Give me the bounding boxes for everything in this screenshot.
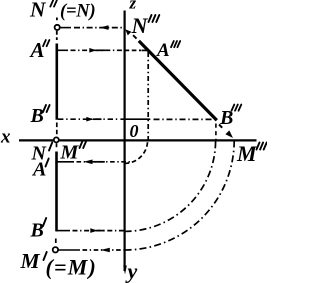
B''' vertical transfer line: [215, 124, 217, 141]
B' row: dash-dot to axis: [73, 230, 125, 232]
x-axis: [19, 139, 257, 141]
B'' row: dashes from corner: [58, 118, 118, 120]
B' row arrow tail: [97, 230, 104, 232]
svg-text:z: z: [129, 0, 137, 13]
dash between N arrow and segment: [133, 35, 136, 38]
B'' row arrow (right): [86, 117, 93, 122]
M' row: solid start from circle: [58, 249, 80, 251]
A''' vertical transfer line: [147, 52, 149, 140]
A'' row arrow tail: [96, 49, 105, 51]
M depth transfer arc: [125, 140, 235, 250]
svg-text:M: M: [236, 141, 258, 166]
left connector: solid through A' down to B': [55, 152, 58, 232]
svg-text:(=M): (=M): [46, 255, 98, 280]
N''' arrowhead (up-left): [125, 29, 131, 35]
B' row: solid start from corner: [56, 230, 70, 232]
left connector: dashed B'' to x-axis: [56, 123, 58, 137]
left connector: dashes below N'' circle: [56, 31, 58, 40]
svg-text:B: B: [30, 105, 44, 127]
B''' row: dash-dot to B''': [154, 118, 216, 120]
extension B''' toward M''': [219, 125, 222, 128]
svg-text:B: B: [30, 220, 44, 242]
A' row arrow tail: [92, 161, 105, 163]
y-axis down arrow: [123, 266, 127, 275]
svg-text:0: 0: [130, 121, 139, 141]
svg-text:A: A: [156, 40, 170, 61]
point circle N'': [55, 25, 60, 30]
svg-text:y: y: [125, 259, 138, 283]
M' row left arrow: [101, 248, 110, 253]
B depth transfer arc: [125, 140, 216, 231]
dash above N'' circle: [56, 18, 58, 21]
svg-text:N: N: [29, 0, 47, 22]
A' row: solid start from corner: [56, 161, 74, 163]
A''' row: dashed from axis to A''': [125, 49, 141, 51]
A' row left arrow: [84, 160, 93, 165]
thick segment A-B profile: [139, 41, 217, 120]
svg-text:A: A: [29, 38, 45, 62]
A'' row arrow: [89, 48, 96, 53]
z/y vertical axis: [123, 11, 125, 272]
svg-text:A: A: [31, 159, 46, 181]
svg-text:N: N: [131, 13, 149, 38]
M''' arrowhead (down-right): [225, 130, 233, 138]
left connector: dash below x-axis circle: [56, 143, 58, 147]
svg-text:M: M: [20, 249, 41, 273]
B'' row arrow tail: [93, 118, 102, 120]
small arc (A' depth transfer): [125, 140, 148, 163]
N'' row: dash-dot to axis: [74, 27, 125, 29]
A'' row: solid start from corner: [56, 49, 68, 51]
point circle M': [53, 247, 58, 252]
svg-text:M: M: [60, 142, 80, 164]
B' row arrow (right): [90, 228, 98, 233]
N'' row: solid start from circle: [60, 27, 71, 29]
left connector: solid A'' to B'': [55, 44, 58, 120]
M' row: dash-dot to axis: [83, 249, 125, 251]
N'' row left-pointing arrow: [100, 25, 109, 30]
A' row: dash-dot to axis: [77, 161, 131, 163]
A'' row: dash-dot to axis: [71, 49, 125, 51]
left connector: dash between B' and M' circle: [55, 239, 57, 244]
B'' row: solid across axis: [120, 118, 150, 120]
svg-text:x: x: [0, 127, 11, 148]
A-triple-prime row solid end at junction: [142, 49, 148, 51]
point circle N'/M'' on x-axis: [54, 137, 59, 142]
svg-text:(=N): (=N): [60, 2, 95, 22]
